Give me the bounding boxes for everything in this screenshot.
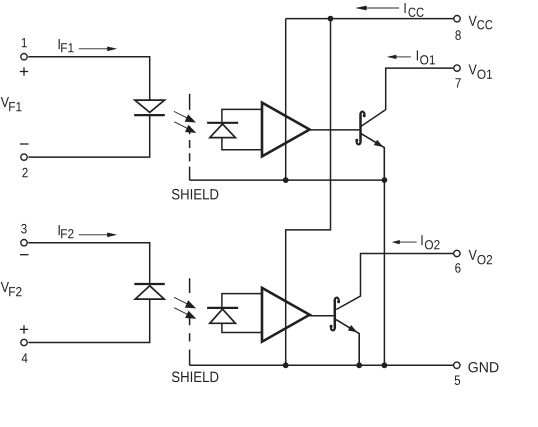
op-amp A2 (262, 288, 310, 342)
pin 4 plus polarity mark (20, 325, 28, 333)
VCC feed column to channel 2 (286, 19, 331, 366)
light emission arrows channel 1 (174, 111, 196, 132)
junction bias line 2 / GND rail (283, 362, 289, 368)
label VF2 (1, 282, 9, 292)
wire pin3 to LED D2 cathode (28, 243, 149, 283)
photodiode PD1 triangle (210, 124, 236, 138)
photodiode PD2 triangle (210, 309, 236, 323)
LED D1 cathode bar (134, 114, 165, 116)
photodiode PD1 bracket wires (222, 109, 261, 149)
wire LED D2 anode to pin4 (28, 299, 149, 342)
pin 7 terminal VO1 (454, 65, 460, 71)
photodiode PD2 bracket wires (222, 294, 261, 333)
IO2 current arrow (392, 240, 417, 244)
GND rail (190, 364, 454, 366)
label VCC (469, 16, 477, 26)
IO1 current arrow (387, 55, 411, 59)
pin 5 terminal GND (454, 362, 460, 368)
LED D2 triangle (135, 286, 164, 299)
transistor Q1 emitter (361, 134, 384, 180)
SHIELD label channel 2 (172, 372, 218, 383)
wire shield rail 1 down to GND rail (383, 180, 385, 365)
label VF1 (1, 97, 9, 107)
op-amp A1 (262, 103, 310, 157)
LED D2 cathode bar (134, 283, 165, 285)
channel 1 shield rail (190, 179, 385, 181)
wire LED D1 cathode to pin2 (28, 115, 149, 157)
pin 4 label (22, 353, 28, 362)
wire op-amp A2 output to Q2 base (310, 315, 334, 317)
pin 8 label (455, 30, 460, 40)
label IF2 (59, 225, 60, 235)
shield corner channel 2 (189, 350, 191, 366)
junction emitter Q1 / shield rail 1 (382, 177, 388, 183)
IF1 current arrow (79, 47, 117, 52)
junction bias line / shield rail 1 (283, 177, 289, 183)
pin 4 terminal (21, 339, 27, 345)
label VO2 (469, 250, 477, 260)
label IF1 (59, 39, 60, 49)
VCC bias line channel 1 (285, 19, 287, 181)
ICC current arrow (355, 6, 399, 11)
pin 1 plus polarity mark (20, 67, 28, 75)
wire VO2 to transistor Q2 collector (336, 254, 453, 310)
pin 1 terminal (21, 54, 27, 60)
pin 2 terminal (21, 154, 27, 160)
junction VCC rail / channel 2 feed (328, 16, 334, 22)
pin 6 label (455, 263, 460, 273)
photodiode PD1 cathode bar (207, 122, 238, 124)
pin 3 minus polarity mark (20, 254, 29, 256)
SHIELD label channel 1 (172, 189, 218, 200)
pin 2 label (22, 168, 27, 178)
light emission arrows channel 2 (174, 297, 196, 319)
transistor Q1 base bar (359, 113, 362, 142)
shield dashed line channel 2 (189, 278, 191, 341)
pin 6 terminal VO2 (454, 250, 460, 256)
pin 3 terminal (21, 240, 27, 246)
transistor Q2 base bar (334, 299, 337, 328)
label VO1 (469, 64, 477, 74)
pin 5 label (455, 376, 460, 385)
wire op-amp A1 output to Q1 base (310, 129, 360, 131)
label IO1 (417, 50, 418, 60)
pin 1 label (22, 38, 27, 47)
LED D1 triangle (135, 100, 165, 112)
VCC rail (286, 18, 454, 20)
shield corner channel 1 (189, 167, 191, 181)
junction channel1 down wire / GND rail (382, 362, 388, 368)
transistor Q2 emitter (336, 320, 359, 366)
pin 3 label (21, 224, 26, 234)
pin 7 label (455, 78, 460, 87)
wire VO1 to transistor Q1 collector (361, 68, 453, 126)
shield dashed line channel 1 (189, 94, 191, 162)
IF2 current arrow (79, 233, 117, 238)
label GND (468, 362, 498, 372)
junction emitter Q2 / GND rail (356, 362, 362, 368)
label IO2 (421, 235, 422, 245)
wire pin1 to LED D1 anode (28, 57, 149, 100)
photodiode PD2 cathode bar (207, 307, 238, 309)
label ICC (405, 3, 406, 13)
pin 2 minus polarity mark (20, 143, 29, 145)
pin 8 terminal VCC (454, 16, 460, 22)
